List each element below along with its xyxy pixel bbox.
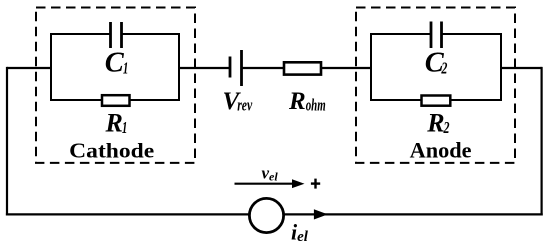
wire: anode RC parallel loop xyxy=(371,34,501,100)
current source circle xyxy=(249,198,283,232)
svg-text:vel: vel xyxy=(262,164,279,184)
wire: R_ohm to anode xyxy=(322,67,372,69)
cathode dashed enclosure xyxy=(36,8,195,163)
svg-text:Anode: Anode xyxy=(410,138,472,163)
wire: battery to R_ohm xyxy=(243,67,285,69)
arrow i_el direction on bottom rail xyxy=(314,209,328,219)
svg-text:R2: R2 xyxy=(426,109,450,138)
svg-text:C1: C1 xyxy=(105,48,129,79)
svg-text:Cathode: Cathode xyxy=(69,139,154,163)
arrow v_el polarity xyxy=(235,179,305,188)
svg-text:C2: C2 xyxy=(425,48,448,79)
capacitor C1 xyxy=(111,22,122,48)
wire: bottom rail right segment xyxy=(284,213,543,215)
svg-text:Rohm: Rohm xyxy=(288,88,326,115)
wire: anode to right rail xyxy=(501,67,542,69)
wire: cathode RC parallel loop xyxy=(51,34,179,100)
wire: right rail vertical xyxy=(540,67,542,216)
wire: left rail vertical xyxy=(6,67,8,216)
svg-text:R1: R1 xyxy=(105,109,128,138)
wire: bottom rail left segment xyxy=(6,213,250,215)
wire: cathode to battery xyxy=(179,67,229,69)
wire: left rail to cathode xyxy=(7,67,51,69)
anode dashed enclosure xyxy=(356,8,515,163)
svg-text:Vrev: Vrev xyxy=(223,88,253,115)
battery V_rev xyxy=(230,50,242,86)
resistor R2 xyxy=(422,96,451,106)
resistor R_ohm xyxy=(284,62,321,74)
svg-text:iel: iel xyxy=(291,220,309,246)
capacitor C2 xyxy=(431,22,442,49)
resistor R1 xyxy=(102,95,130,106)
plus sign (polarity) xyxy=(311,179,320,189)
